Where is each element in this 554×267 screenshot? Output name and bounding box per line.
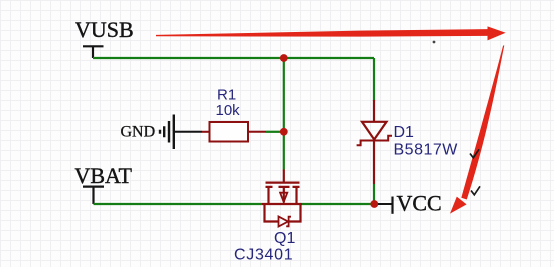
annotation check mark 2 bbox=[471, 186, 480, 195]
junction dot VCC node bbox=[370, 200, 378, 208]
wire diode branch upper bbox=[373, 58, 375, 101]
svg-text:D1: D1 bbox=[394, 124, 415, 141]
junction dot R1 node bbox=[280, 128, 288, 136]
power port VBAT bbox=[75, 163, 133, 204]
svg-text:CJ3401: CJ3401 bbox=[234, 247, 293, 264]
svg-text:10k: 10k bbox=[216, 102, 241, 119]
wire R1 to junction bbox=[266, 131, 281, 133]
power ground GND bbox=[121, 115, 203, 150]
svg-text:VBAT: VBAT bbox=[75, 163, 133, 188]
power port VUSB bbox=[75, 17, 134, 58]
annotation dot bbox=[433, 41, 436, 44]
resistor R1 bbox=[202, 122, 266, 142]
junction dot gate top node bbox=[280, 54, 288, 62]
svg-text:VCC: VCC bbox=[397, 191, 442, 216]
annotation arrow right bbox=[156, 26, 506, 40]
svg-text:Q1: Q1 bbox=[274, 230, 295, 247]
wire top rail VUSB bbox=[93, 57, 374, 59]
svg-text:GND: GND bbox=[121, 124, 156, 141]
annotation check mark 1 bbox=[470, 149, 479, 158]
svg-text:B5817W: B5817W bbox=[394, 141, 459, 158]
annotation arrow down bbox=[461, 46, 504, 200]
transistor Q1 bbox=[262, 170, 302, 227]
diode D1 bbox=[357, 100, 392, 184]
svg-text:VUSB: VUSB bbox=[75, 17, 134, 42]
wire Q1 to VCC node bbox=[302, 203, 374, 205]
wire diode to VCC node bbox=[373, 184, 375, 204]
wire gate branch vertical bbox=[283, 58, 285, 170]
power port VCC bbox=[378, 191, 442, 216]
wire VBAT rail bbox=[94, 203, 263, 205]
